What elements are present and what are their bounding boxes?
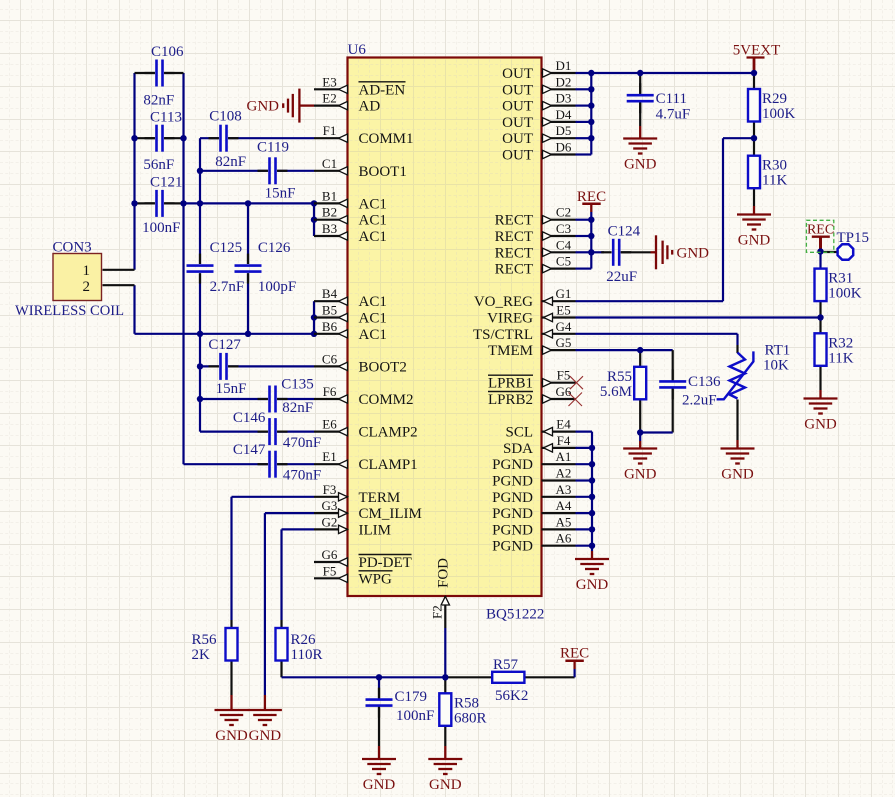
svg-text:C108: C108 [209,109,242,125]
pin G2 (ILIM) left side [314,514,391,538]
svg-text:C6: C6 [322,351,338,366]
svg-text:AC1: AC1 [359,213,387,229]
wire bus A (AC1+ net, CON3 pin1 / C106,C113,C121 left) [133,73,135,270]
svg-text:VIREG: VIREG [487,311,533,327]
junction dots bottom rail [376,674,382,680]
svg-text:GND: GND [576,577,609,593]
pin G3 (CM_ILIM) left side [314,498,422,522]
svg-text:OUT: OUT [502,82,533,98]
svg-text:PGND: PGND [492,522,533,538]
svg-text:E4: E4 [556,417,571,432]
wire row C121/B1 [135,202,155,204]
pin D4 (OUT) right side [502,107,575,131]
svg-text:4.7uF: 4.7uF [656,107,691,123]
svg-text:D4: D4 [556,107,572,122]
svg-text:22uF: 22uF [606,269,637,285]
wire bus C (BOOT nets column via C125) [199,138,201,264]
svg-text:C5: C5 [556,254,571,269]
svg-text:BOOT1: BOOT1 [359,164,407,180]
svg-text:AC1: AC1 [359,229,387,245]
svg-text:F1: F1 [323,123,337,138]
capacitor C106 [143,44,184,109]
svg-text:RECT: RECT [495,262,533,278]
svg-text:R56: R56 [192,632,218,648]
pin A5 (PGND) right side [492,514,575,538]
svg-text:15nF: 15nF [216,381,247,397]
svg-text:2: 2 [83,279,91,295]
svg-text:TERM: TERM [359,490,401,506]
pin E5 (VIREG) right side [487,303,575,327]
wire bottom rail to R57 [282,676,448,678]
wire REC/TP15 node [819,237,822,251]
svg-text:FOD: FOD [436,558,452,588]
svg-text:CM_ILIM: CM_ILIM [359,506,422,522]
svg-text:R30: R30 [762,158,787,174]
capacitor C135 [258,376,314,416]
svg-text:VO_REG: VO_REG [474,294,533,310]
capacitor C147 [233,442,321,484]
connector CON3 [15,240,135,320]
wire BOOT2 row via C127 to C6 [200,365,219,367]
svg-text:2K: 2K [192,647,211,663]
svg-text:SDA: SDA [503,441,533,457]
svg-text:D6: D6 [556,140,572,155]
svg-text:A6: A6 [556,531,572,546]
svg-text:TS/CTRL: TS/CTRL [473,327,533,343]
pin A2 (PGND) right side [492,466,575,490]
svg-text:E2: E2 [322,91,336,106]
svg-text:D5: D5 [556,123,572,138]
svg-text:C121: C121 [150,175,183,191]
thermistor RT1 [717,343,791,400]
pin E1 (CLAMP1) left side [314,449,418,473]
pin D5 (OUT) right side [502,123,575,147]
capacitor C179 [366,688,435,724]
resistor R29 [748,89,796,122]
svg-text:WPG: WPG [359,571,393,587]
wire RECT bus C2-C5 [590,220,592,269]
svg-text:680R: 680R [454,710,487,726]
svg-text:100K: 100K [762,106,796,122]
wire R55 GND stub [639,433,641,442]
svg-text:2.7nF: 2.7nF [210,279,245,295]
svg-text:C146: C146 [233,410,266,426]
wire C111 bottom lead to GND [639,103,641,127]
svg-text:TP15: TP15 [837,230,870,246]
svg-text:R29: R29 [762,91,787,107]
svg-text:PGND: PGND [492,474,533,490]
svg-text:RECT: RECT [495,213,533,229]
wire C124 row [591,251,604,253]
pin C6 (BOOT2) left side [314,351,407,375]
svg-text:C106: C106 [151,44,184,60]
pin C2 (RECT) right side [495,205,576,229]
svg-text:A5: A5 [556,514,572,529]
wire AC1- row to B6 [135,333,315,335]
junction dot 5VEXT/D1 [751,70,757,76]
wire R29 leads [753,73,755,89]
svg-text:R55: R55 [607,369,632,385]
svg-text:LPRB1: LPRB1 [488,376,533,392]
wire R55/C136 bottom tie [640,431,673,433]
junction dots RECT net [588,217,594,223]
wire C126 column [247,203,249,264]
svg-text:C4: C4 [556,237,572,252]
pin C3 (RECT) right side [495,221,576,245]
wire ILIM G2 to R26 [282,528,315,530]
capacitor C124 [601,223,640,284]
wire bus B (CLAMP1 net, C106,C113,C121 right plates to C147/E1) [182,73,184,464]
wire REC stub above C2 [590,205,592,212]
svg-text:C3: C3 [556,221,571,236]
svg-text:REC: REC [807,223,834,238]
capacitor C121 [142,175,182,237]
wire VIREG E5 row [576,316,821,318]
svg-text:OUT: OUT [502,66,533,82]
svg-text:G5: G5 [556,335,572,350]
svg-text:110R: 110R [291,647,323,663]
wire BOOT1 row via C119 to C1 pin [200,170,268,172]
capacitor C136 [659,369,721,408]
svg-text:B5: B5 [322,303,337,318]
wire 5VEXT stub [753,58,756,74]
svg-text:C111: C111 [656,91,687,107]
ground GND sideways at C124 [656,235,709,269]
svg-text:C2: C2 [556,205,571,220]
junction dot VIREG divider [817,314,823,320]
svg-text:5.6M: 5.6M [600,384,632,400]
svg-text:D2: D2 [556,74,572,89]
no-ERC cross on LPRB2 pin [569,393,583,407]
pin D6 (OUT) right side [502,140,575,164]
svg-text:R32: R32 [828,335,853,351]
test point TP15 [837,230,870,260]
no-ERC cross on LPRB1 pin [570,376,583,389]
svg-text:R58: R58 [454,695,479,711]
wire FOD F2 drop [444,628,446,677]
capacitor C146 [233,410,321,451]
pin D3 (OUT) right side [502,91,575,115]
svg-text:E6: E6 [322,417,337,432]
svg-text:AD: AD [359,99,381,115]
svg-text:2.2uF: 2.2uF [682,393,717,409]
svg-text:C1: C1 [322,156,337,171]
pin A6 (PGND) right side [492,531,575,555]
wire B1-B3 pin tie [313,203,315,236]
svg-text:C136: C136 [688,374,721,390]
svg-text:10K: 10K [763,358,789,374]
svg-text:OUT: OUT [502,99,533,115]
svg-text:RECT: RECT [495,245,533,261]
pin D2 (OUT) right side [502,74,575,98]
wire COMM2 row via C135 to F6 [200,398,268,400]
junction dot TMEM/R55 [637,347,643,353]
ground GND under R55 [623,449,657,483]
ground GND sideways at AD pin E2 [247,89,315,123]
wire COMM1 row to C108 and F1 pin [200,137,219,139]
junction dot REC/TP15 [817,248,823,254]
svg-text:C125: C125 [210,240,243,256]
pin E3 (AD-EN) left side [314,74,406,98]
resistor R31 [815,269,862,302]
pin C5 (RECT) right side [495,254,576,278]
pin G5 (TMEM) right side [488,335,576,359]
svg-text:A1: A1 [556,449,572,464]
svg-text:100pF: 100pF [258,279,296,295]
svg-text:PGND: PGND [492,490,533,506]
svg-text:5VEXT: 5VEXT [733,43,781,59]
svg-text:100K: 100K [828,286,862,302]
svg-text:CLAMP1: CLAMP1 [359,457,418,473]
svg-text:BQ51222: BQ51222 [486,607,544,623]
ground GND under RT1 [721,449,755,483]
svg-text:D3: D3 [556,91,572,106]
wire CLAMP1 row via C147 to E1 [184,463,268,465]
svg-text:GND: GND [215,728,248,744]
svg-text:56nF: 56nF [143,157,174,173]
svg-text:GND: GND [624,467,657,483]
junction dot R29/R30 divider [751,135,757,141]
svg-text:TMEM: TMEM [488,343,533,359]
svg-text:C119: C119 [257,140,289,156]
svg-text:C124: C124 [608,223,641,239]
wire C111 top lead [639,73,641,94]
svg-text:B3: B3 [322,221,337,236]
svg-text:11K: 11K [762,173,787,189]
resistor R58 [439,693,486,726]
pin A4 (PGND) right side [492,498,575,522]
pin F3 (TERM) left side [314,482,400,506]
pin E2 (AD) left side [314,91,380,115]
ground GND under PGND bus [575,559,609,593]
svg-text:AC1: AC1 [359,311,387,327]
wire OUT bus D2-D6 [590,73,592,155]
pin B6 (AC1) left side [314,319,387,343]
svg-text:OUT: OUT [502,148,533,164]
svg-text:100nF: 100nF [396,708,434,724]
svg-text:C147: C147 [233,442,266,458]
pin B4 (AC1) left side [314,286,387,310]
svg-text:CON3: CON3 [53,240,92,256]
svg-text:1: 1 [83,263,91,279]
svg-text:AC1: AC1 [359,294,387,310]
wire R55 column [639,350,641,367]
svg-text:SCL: SCL [505,425,533,441]
pin C1 (BOOT1) left side [314,156,407,180]
resistor R55 [600,367,646,400]
wire B4-B6 pin tie [313,301,315,334]
svg-text:15nF: 15nF [265,186,296,202]
ground GND under C179 [362,759,396,793]
svg-text:COMM1: COMM1 [359,131,414,147]
op-amp/IC U6 BQ51222 body [348,58,542,597]
svg-text:BOOT2: BOOT2 [359,359,407,375]
svg-text:RECT: RECT [495,229,533,245]
svg-text:B6: B6 [322,319,338,334]
svg-text:D1: D1 [556,58,572,73]
wire R31 lower lead / R32 upper lead [819,301,821,333]
svg-text:GND: GND [363,777,396,793]
pin A1 (PGND) right side [492,449,575,473]
svg-text:A2: A2 [556,466,572,481]
wire TMEM G5 row [576,349,673,351]
svg-text:AC1: AC1 [359,327,387,343]
wire C136 column [672,350,674,381]
wire C179 leads [378,677,380,688]
wire CLAMP2 row via C146 to E6 [200,431,268,433]
pin E4 (SCL) right side [505,417,575,441]
pin F2 (FOD) bottom side [430,558,452,628]
svg-text:ILIM: ILIM [359,522,392,538]
svg-text:RT1: RT1 [765,343,791,359]
svg-text:G6: G6 [556,384,572,399]
svg-text:PD-DET: PD-DET [359,555,412,571]
wire R30 lead to GND [753,188,755,206]
pin G6 (PD-DET) left side [314,547,412,571]
svg-text:F5: F5 [557,368,571,383]
wire SCL/SDA/PGND bus [591,432,593,546]
pin D1 (OUT) right side [502,58,575,82]
resistor R26 [276,628,323,663]
svg-text:B4: B4 [322,286,338,301]
svg-text:GND: GND [624,157,657,173]
power port REC (above C2) [577,189,606,205]
wire row C113/COMM1 left segment [135,137,155,139]
capacitor C113 [143,110,182,174]
svg-text:B1: B1 [322,188,337,203]
svg-text:LPRB2: LPRB2 [488,392,533,408]
wire R26 leads [280,620,282,628]
svg-text:A4: A4 [556,498,572,513]
capacitor C108 [209,109,247,171]
svg-text:GND: GND [677,246,710,262]
svg-text:A3: A3 [556,482,572,497]
svg-text:E5: E5 [556,303,570,318]
svg-text:GND: GND [429,777,462,793]
junction dots left cap stack [131,135,137,141]
svg-text:E1: E1 [322,449,336,464]
capacitor C127 [208,337,246,397]
wire R58 leads [444,677,446,693]
power port REC (bottom, right of R57) [560,646,589,662]
ground GND under C111 [623,139,657,173]
svg-text:470nF: 470nF [283,435,321,451]
svg-text:GND: GND [247,99,280,115]
wire RT1 bottom lead to GND [736,400,738,441]
resistor R57 [492,657,528,704]
svg-text:G4: G4 [556,319,572,334]
svg-text:GND: GND [249,728,282,744]
power port 5VEXT [733,43,781,59]
svg-text:AC1: AC1 [359,196,387,212]
svg-text:COMM2: COMM2 [359,392,414,408]
wire R29/R30 junction branch to VO_REG [723,137,754,139]
resistor R56 [192,628,238,663]
svg-text:G3: G3 [322,498,338,513]
wire TS/CTRL G4 row to RT1 [576,333,738,335]
capacitor C125 [187,240,245,295]
svg-text:B2: B2 [322,205,337,220]
svg-text:G6: G6 [322,547,338,562]
junction dots PGND bus [589,445,595,451]
pin C4 (RECT) right side [495,237,576,261]
svg-text:F4: F4 [557,433,571,448]
svg-text:G2: G2 [322,514,338,529]
svg-text:F3: F3 [323,482,337,497]
svg-text:C127: C127 [208,337,241,353]
svg-text:82nF: 82nF [282,400,313,416]
capacitor C126 [235,240,297,295]
svg-text:C135: C135 [281,376,314,392]
svg-text:GND: GND [738,233,771,249]
pin F5 (LPRB1) right side [488,368,576,392]
svg-text:56K2: 56K2 [495,688,528,704]
svg-text:F2: F2 [430,605,445,619]
ground GND under R30 [737,215,771,249]
svg-text:470nF: 470nF [283,468,321,484]
resistor R30 [748,156,787,189]
pin F5 (WPG) left side [314,563,393,587]
pin A3 (PGND) right side [492,482,575,506]
svg-text:REC: REC [560,646,589,662]
svg-text:G1: G1 [556,286,572,301]
wire OUT net D1 row [576,72,755,74]
pin F1 (COMM1) left side [314,123,414,147]
no-ERC box REC at TP15 [806,220,834,252]
pin F4 (SDA) right side [503,433,576,457]
wire VO_REG G1 row [576,300,724,302]
svg-text:C113: C113 [150,110,182,126]
pin B1 (AC1) left side [314,188,387,212]
svg-text:R26: R26 [291,632,317,648]
ground GND under R32 [804,399,838,433]
svg-text:PGND: PGND [492,457,533,473]
svg-text:C179: C179 [395,689,428,705]
wire PGND bus GND stub [591,546,593,551]
resistor R32 [815,333,854,366]
ground GND under R56 [215,710,249,744]
svg-text:E3: E3 [322,74,336,89]
svg-text:C126: C126 [258,240,291,256]
wire row C106 (between buses) [135,72,155,74]
wire TERM F3 to R56 [232,496,315,498]
junction dots OUT net [588,70,594,76]
svg-text:CLAMP2: CLAMP2 [359,425,418,441]
junction dot R55/C136 bottom [637,429,643,435]
wire R56 leads [230,620,232,628]
pin G1 (VO_REG) right side [474,286,576,310]
svg-text:WIRELESS COIL: WIRELESS COIL [15,303,124,319]
pin G4 (TS/CTRL) right side [473,319,576,343]
svg-text:F6: F6 [323,384,337,399]
wire CON3 pin2 drop [133,285,135,334]
wire REC stub bottom [573,669,575,677]
pin B5 (AC1) left side [314,303,387,327]
ground GND under CM_ILIM wire [248,710,282,744]
ground GND under R58 [428,759,462,793]
pin B3 (AC1) left side [314,221,387,245]
wire R32 lead to GND [819,366,821,390]
svg-text:PGND: PGND [492,539,533,555]
svg-text:100nF: 100nF [142,220,180,236]
svg-text:R57: R57 [493,657,519,673]
svg-text:82nF: 82nF [143,93,174,109]
pin F6 (COMM2) left side [314,384,414,408]
svg-text:82nF: 82nF [215,154,246,170]
svg-text:PGND: PGND [492,506,533,522]
svg-text:OUT: OUT [502,131,533,147]
pin G6 (LPRB2) right side [488,384,576,408]
